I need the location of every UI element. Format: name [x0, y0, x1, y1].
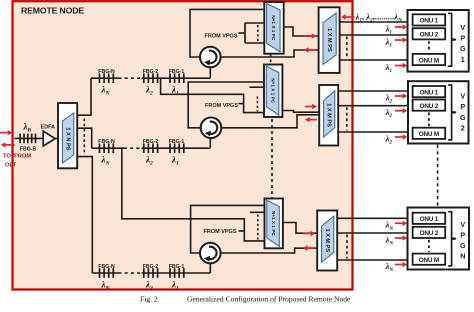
wire PC1 output to MPS1 [284, 27, 319, 36]
wire chain3 seg A [92, 272, 118, 274]
FBG-N chain1 [100, 73, 114, 83]
bracket VPG N [448, 212, 456, 266]
input arrow to remote node [0, 130, 12, 135]
svg-text:ONU 1: ONU 1 [420, 18, 439, 25]
ONU M box VPG 2 [413, 128, 446, 139]
dashed link VPG2-VPGN more groups [437, 145, 439, 207]
ONU 2 box VPG N [413, 227, 446, 238]
ONU M box VPG 1 [413, 54, 446, 65]
FBG-2 chain1 [144, 73, 158, 83]
svg-text:FROM VPGS: FROM VPGS [205, 103, 238, 109]
FBG-2 chain3 [144, 268, 158, 278]
wire PC2 output to MPS2 [282, 111, 319, 113]
wire tee chain1 to PC2 input [161, 78, 265, 112]
vpgs1 bracket [244, 23, 246, 43]
wire EDFA to splitter [55, 138, 58, 140]
wire splitter mid output to chain 2 [77, 128, 92, 148]
FBG-1 chain1 [170, 73, 184, 83]
wire chain1 seg B [142, 77, 211, 79]
dashed more ONUs VPG N [428, 240, 430, 252]
EDFA amplifier [43, 131, 55, 146]
svg-text:V: V [460, 220, 465, 229]
wire vpgs1 line2 to PC1 [245, 42, 265, 44]
wire vpgs3 line1 to PC3 [250, 211, 265, 213]
wire MPS1 upstream line to VPG1 [340, 21, 408, 23]
wire vpgs3 bracket tick [239, 230, 245, 232]
upstream arrow branch1 [341, 14, 355, 19]
wire chain2 seg B [142, 147, 211, 149]
wire circulator3 right port to MPS3 [221, 248, 318, 253]
dashed MPS3 more outputs [346, 235, 348, 259]
ONU 2 box VPG 1 [413, 28, 446, 39]
svg-text:1: 1 [461, 55, 465, 64]
wire vpgs2 line1 to PC2 [250, 86, 265, 88]
svg-text:N: N [460, 252, 465, 261]
dashed vpgs3 more lines [257, 215, 259, 240]
switch box U5 1xM PS [319, 85, 338, 146]
svg-text:P: P [460, 230, 465, 239]
dashed MPS1 more outputs [346, 37, 348, 59]
svg-text:EDFA: EDFA [41, 124, 55, 130]
ONU 1 box VPG 2 [413, 86, 446, 97]
wire chain1 riser to circulator1 [209, 68, 211, 79]
svg-text:G: G [460, 44, 466, 53]
splitter 1xN PS parallelogram [62, 113, 73, 163]
combiner box U6 N+1x1 PC [265, 199, 283, 249]
svg-text:ONU M: ONU M [419, 131, 439, 138]
svg-text:FBG-1: FBG-1 [169, 139, 185, 145]
dashed vpgs2 more lines [256, 97, 258, 112]
svg-text:P: P [460, 34, 465, 43]
svg-text:FROM VPGS: FROM VPGS [204, 33, 237, 39]
arrow into MPS1 [304, 33, 316, 38]
wire OLT line to EDFA [14, 137, 43, 139]
dashed MPS2 more outputs [346, 107, 348, 130]
wire MPS2 to ONU2 vpg2 [338, 105, 408, 107]
circulator X2 [201, 118, 222, 139]
dashed link PC1-PC2 [270, 55, 272, 65]
svg-text:FBG-N: FBG-N [98, 69, 115, 75]
svg-text:FBG-N: FBG-N [98, 139, 115, 145]
wire circulator2 left port to PC2 [188, 82, 264, 128]
dashed more splitter outputs [83, 119, 85, 156]
wire MPS2 to ONUM vpg2 [338, 131, 408, 133]
svg-text:ONU M: ONU M [419, 57, 439, 64]
wire MPS1 to ONUM vpg1 [340, 59, 408, 61]
wire chain2 seg A [92, 147, 124, 149]
wire chain3 riser to circulator3 [209, 264, 211, 274]
wire chain1 seg A [91, 77, 119, 79]
svg-text:FBG-N: FBG-N [98, 264, 115, 270]
wire MPS3 to ONU1 vpgN [337, 217, 407, 219]
switch box U3 1xM PS [319, 7, 340, 73]
wire vpgs2 bracket tick [239, 103, 244, 105]
VPG group box VPG 1 [408, 10, 469, 72]
arrow out of MPS2 [305, 117, 317, 122]
svg-text:G: G [460, 241, 466, 250]
dashed more ONUs VPG 1 [428, 41, 430, 52]
svg-text:ONU 1: ONU 1 [420, 216, 439, 223]
wire vpgs1 bracket tick [239, 32, 246, 34]
wire chain1 dashed gap [119, 77, 142, 79]
svg-text:ONU 2: ONU 2 [420, 103, 439, 110]
wire chain3 dashed gap [119, 272, 142, 274]
FBG-1 chain2 [170, 143, 184, 153]
output arrow from remote node [1, 142, 15, 147]
wire vpgs1 line1 to PC1 [245, 22, 265, 24]
wire MPS1 to ONU2 vpg1 [340, 34, 408, 36]
splitter box U1 [58, 103, 77, 168]
wire circulator3 left port to PC3 [191, 205, 265, 253]
dashed more ONUs VPG 2 [428, 113, 430, 127]
wire MPS3 to ONUM vpgN [337, 259, 407, 261]
svg-text:TO /FROM: TO /FROM [3, 154, 31, 160]
svg-text:ONU 2: ONU 2 [420, 230, 439, 237]
wire circulator2 right port to MPS2 [222, 115, 319, 128]
ONU 2 box VPG 2 [413, 100, 446, 111]
bracket VPG 1 [448, 13, 456, 66]
svg-text:FBG-2: FBG-2 [143, 69, 159, 75]
FBG-2 chain2 [144, 143, 158, 153]
svg-text:1 X M PS: 1 X M PS [326, 103, 332, 127]
wire circulator1 right port to MPS1 [221, 50, 319, 57]
svg-text:1 X N PS: 1 X N PS [65, 127, 71, 150]
wire MPS3 to ONU2 vpgN [337, 232, 407, 234]
ONU M box VPG N [413, 254, 446, 265]
svg-text:1 X M PS: 1 X M PS [326, 28, 332, 52]
wire circulator1 left port to PC1 [190, 9, 265, 57]
combiner box U2 N+1x1 PC [264, 2, 283, 54]
svg-text:G: G [460, 113, 466, 122]
FBG-1 chain3 [170, 268, 184, 278]
combiner box U4 N+1x1 PC [264, 65, 282, 118]
svg-text:REMOTE NODE: REMOTE NODE [21, 5, 84, 15]
svg-text:N+1 X 1 PC: N+1 X 1 PC [271, 211, 276, 236]
circulator X3 [200, 243, 221, 264]
wire chain3 seg B [142, 272, 211, 274]
svg-text:P: P [460, 102, 465, 111]
wire MPS2 to ONU1 vpg2 [338, 90, 408, 92]
arrow out of MPS1 [304, 47, 316, 52]
svg-text:FBG-2: FBG-2 [143, 264, 159, 270]
svg-text:N+1 X 1 PC: N+1 X 1 PC [270, 78, 275, 103]
switch box U7 1xM PS [317, 211, 337, 271]
wire PC3 output to MPS3 [283, 223, 317, 234]
svg-text:Fig. 2.: Fig. 2. [140, 295, 160, 304]
VPG group box VPG N [408, 208, 470, 270]
svg-text:OLT: OLT [5, 163, 17, 169]
svg-text:ONU 2: ONU 2 [420, 32, 439, 39]
wire chain2 dashed gap [124, 147, 142, 149]
arrow out of MPS3 [303, 245, 315, 250]
svg-text:V: V [460, 92, 465, 101]
svg-text:N+1 X 1 PC: N+1 X 1 PC [271, 15, 276, 40]
wire tee chain2 to PC3 input [122, 148, 265, 241]
VPG group box VPG 2 [408, 81, 469, 143]
svg-text:FBG-B: FBG-B [20, 147, 37, 153]
svg-text:FBG-1: FBG-1 [169, 69, 185, 75]
svg-text:FROM VPGS: FROM VPGS [203, 229, 236, 235]
wire splitter top output to chain 1 [77, 78, 91, 115]
svg-text:Generalized Configuration of P: Generalized Configuration of Proposed Re… [187, 295, 351, 304]
dashed link PC2-PC3 more branches [271, 119, 273, 198]
dashed vpgs1 more lines [257, 25, 259, 42]
svg-text:V: V [460, 23, 465, 32]
FBG-N chain2 [100, 143, 114, 153]
svg-text:ONU M: ONU M [419, 257, 439, 264]
svg-text:FBG-1: FBG-1 [169, 264, 185, 270]
ONU 1 box VPG N [413, 213, 446, 224]
FBG-N chain3 [100, 268, 114, 278]
bracket VPG 2 [448, 85, 456, 140]
FBG-B [20, 134, 35, 144]
svg-text:1 X M PS: 1 X M PS [324, 228, 330, 252]
remote node enclosure [13, 1, 353, 289]
arrow into MPS2 [305, 104, 317, 109]
circulator X1 [200, 47, 221, 68]
svg-text:2: 2 [461, 123, 465, 132]
svg-text:FBG-2: FBG-2 [143, 139, 159, 145]
wire splitter bottom output riser to chain 3 [77, 157, 92, 273]
svg-text:ONU 1: ONU 1 [420, 89, 439, 96]
arrow into MPS3 [303, 231, 315, 236]
wire chain2 riser to circulator2 [209, 139, 211, 148]
ONU 1 box VPG 1 [413, 14, 446, 25]
